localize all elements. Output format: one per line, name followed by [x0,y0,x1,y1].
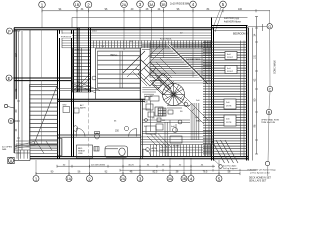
grid bubble F (left) [7,28,17,34]
svg-text:G: G [268,25,271,29]
interior wall y78 (double) [14,78,71,81]
svg-text:100: 100 [238,8,243,11]
ridge diagonal B white halo [168,44,208,84]
door arc center bottom [143,149,151,157]
small circle fixture center [184,103,188,107]
grid bubble 3 (bottom) [137,176,143,182]
grid bubble C (right) [267,86,272,91]
top exterior wall (double line) [14,28,212,30]
misc marker circle top [124,126,128,130]
grid bubble D (left) [8,118,18,123]
grid bubble 1 (bottom) [33,176,39,182]
grid bubble E (left) [6,75,16,81]
label box 4x4 post second [225,66,237,74]
lower-left deck stripes [16,141,58,154]
interior wall x71 (double) [72,30,74,157]
grid line 2 leader [88,8,90,101]
closet box fixture lower-left [77,145,93,158]
stair S1 upper (treads) [73,48,92,92]
grid bubble 5 (bottom) [216,176,222,182]
svg-text:E: E [8,76,11,81]
text clear patch [58,34,72,38]
svg-text:46.25: 46.25 [128,164,134,166]
svg-text:BATH: BATH [80,107,86,110]
grid bubble B (right) [266,109,271,114]
bath door arc [77,128,86,137]
bottom secondary dimension line [57,165,215,168]
toilet fixture [73,126,77,132]
right wing top wall (double line) [212,26,248,28]
deck left edge wall [95,48,97,99]
annotation text near grid 5 [224,17,242,23]
grid line 3 leader [139,7,141,100]
bottom grid bubbles row [33,176,222,182]
left dimension line [17,31,22,160]
grid line 4 leader [192,8,194,45]
hall lines center [142,120,190,157]
center horizontal partition y131 (double) [142,132,211,134]
svg-text:SPACE: SPACE [78,149,86,152]
bottom dimension numbers [51,171,231,174]
bottom grid leader lines [36,158,219,175]
center partition lines [142,101,190,132]
stair stringer wall left (double) [77,28,79,92]
ridge diagonal B [168,44,208,84]
grid 1 line through patio [41,30,43,78]
left exterior wall (double line) [14,28,16,153]
svg-text:R-30 INSUL: R-30 INSUL [160,38,173,40]
top dimension line [42,9,270,12]
label box fourth [224,115,236,126]
svg-text:4x8 HDR Above: 4x8 HDR Above [224,20,242,23]
sheet note bottom right [249,178,272,183]
svg-text:2x8 RAFTERS: 2x8 RAFTERS [186,58,201,61]
svg-text:DN: DN [162,120,166,122]
diamond brace 1 [138,62,162,86]
svg-text:F: F [8,29,11,34]
svg-text:2x10 RIDGE BM: 2x10 RIDGE BM [170,2,189,6]
wing bottom diagonal braces [212,140,239,163]
deck top edge line [96,48,140,50]
small center boxes [155,107,163,116]
hip diagonal C [123,51,145,73]
bottom deck band lines [141,140,214,145]
label box 4x4 post upper [225,52,237,60]
right wall inner line [252,28,254,161]
grid bubble 1B (top) [74,1,81,8]
grid bubble 3A (top) [148,1,155,8]
grid bubble 1 (top) [39,1,46,8]
right grid vertical line [268,10,270,176]
svg-text:JSTS: JSTS [226,122,232,124]
top band edge vertical [61,30,63,48]
svg-text:3B: 3B [161,3,166,7]
keynote circle bottom right [265,161,269,165]
extra hip diagonals [127,45,204,86]
grid bubble 2 (top) [85,1,92,8]
diagonal bundle lower center [147,134,171,148]
center fixtures small [146,126,182,143]
joist hatch band center-right [142,43,212,84]
svg-text:BEDROOM 2: BEDROOM 2 [152,151,166,153]
grid bubble 3 (top) [137,1,144,8]
ridge diagonal A [141,60,172,90]
top grid bubbles row [39,1,227,8]
svg-text:B: B [268,111,271,115]
roof outline left stub [71,18,73,29]
svg-text:4x4 Thru Axle: 4x4 Thru Axle [223,165,237,168]
room A texts [114,121,120,133]
svg-text:WALL: WALL [196,119,203,122]
grid bubble 2 (bottom) [87,176,93,182]
interior wall y99-101 (double) [58,99,146,101]
center clutter rows [142,88,160,95]
grid line 1B leader [76,7,78,44]
svg-text:2x6 DECKING: 2x6 DECKING [91,164,105,166]
bottom tertiary dimension line [120,169,256,172]
svg-text:3B: 3B [182,177,187,181]
bottom exterior wall (double line) [30,157,248,159]
svg-text:14R: 14R [75,50,79,52]
svg-text:TRIM 10x124N: TRIM 10x124N [261,122,275,124]
spiral fan / round feature [163,84,185,106]
svg-text:DECK HOME IN SET: DECK HOME IN SET [249,178,272,180]
svg-text:CONC WALK: CONC WALK [274,60,277,74]
brace tick marks [163,73,195,111]
small dark box fixture [94,147,99,152]
leader from wing wall to bubble G [248,25,267,27]
bedroom label diamond [145,147,165,153]
grid bubble 2A (top) [121,1,128,8]
small rect cluster left of fan [145,81,161,101]
svg-text:84 BM: 84 BM [173,146,179,148]
deck plank stripes area [98,51,141,88]
svg-text:3A: 3A [168,177,173,181]
interior wall x57 (double) [58,30,60,159]
interior grid wall x30 [29,30,31,161]
annotation bottom left [2,147,12,151]
svg-text:PLANNING with Somer fittings: PLANNING with Somer fittings [248,169,276,172]
annotation 4x4 rail post (bottom) [223,165,238,171]
toilet 2 fixture [94,132,99,139]
svg-text:1B: 1B [75,3,80,7]
grid bubble 2A (bottom) [120,176,126,182]
wing strip line [214,30,247,32]
svg-text:2A: 2A [122,3,127,7]
right edge annotation text [261,119,279,125]
interior wall x140 (double) [141,48,143,159]
stair S2 lower-left treads [30,85,58,145]
upper area tiny texts 2 [75,46,201,61]
bottom deck extra horizontals [141,137,214,153]
grid bubble 1A (bottom) [66,176,72,182]
keynote marker (left) [4,104,14,108]
svg-text:3A: 3A [149,3,154,7]
left dimension numbers (rotated) [15,52,18,147]
svg-text:ALTA: ALTA [152,147,158,150]
svg-text:hall: hall [171,126,175,128]
double diagonal corridor [150,71,208,124]
stair stringer wall right (double) [89,28,91,92]
bottom secondary dimension numbers [63,164,204,166]
grid bubble 3B (bottom) [181,176,187,182]
right dimension numbers (rotated) [254,33,257,127]
laundry fixture box 1 [63,107,70,113]
small circle marker near deck [92,76,96,80]
left grid bubbles [4,28,30,164]
svg-text:C: C [269,88,272,92]
svg-text:OPEN TRAIL ROW: OPEN TRAIL ROW [261,119,279,122]
svg-text:FOR B XX: FOR B XX [61,37,72,39]
grid 1 line through stair [41,81,43,144]
dark hatch box center [158,108,166,116]
bottom main dimension line [36,172,240,175]
svg-text:2x4 rg Support: 2x4 rg Support [223,167,238,170]
extra center fixtures [145,96,183,130]
svg-text:1A: 1A [67,177,72,181]
top dimension numbers [59,8,243,11]
svg-text:POST: POST [227,57,234,59]
bed / tub fixture [105,146,128,158]
grid line 2A leader [123,7,125,50]
svg-text:W/D: W/D [63,105,68,107]
right wing roof hatch [203,41,247,157]
roof slope diagonals left-center [72,82,100,94]
grid bubble 4 (top) [190,1,197,8]
upper band tiny texts [61,30,183,43]
grid line 1 leader [41,8,43,28]
right grid bubbles [219,24,273,169]
label box third [224,99,236,109]
svg-text:76.5: 76.5 [203,171,208,174]
grid bubble 4 (bottom) [188,176,194,182]
bottom deck joist ticks [150,145,214,157]
grid bubble A (bottom left) [8,157,30,163]
roof outline top edge [72,17,248,19]
svg-text:D: D [10,120,13,124]
top grid leader lines [42,7,224,101]
grid line 3B leader [163,8,165,59]
keynote circle bottom center [219,165,223,169]
annotation plan note (bottom right) [248,169,276,175]
grid bubble 5 (top) [220,1,227,8]
center area tiny texts [144,96,203,148]
svg-text:A: A [10,159,13,163]
right dimension line [255,17,263,155]
entry steps bottom-left [14,150,30,159]
leader to keynote circle bottom [212,158,220,166]
interior wall y135-137 (double) [58,135,142,137]
svg-text:at This System on Kit: at This System on Kit [250,171,270,174]
svg-text:JSTS: JSTS [226,105,232,107]
grid 5 slanted leaders [212,7,221,30]
svg-text:82.5: 82.5 [153,171,158,174]
svg-text:BED+L: BED+L [111,55,119,57]
grid bubble G (right top) [267,24,272,29]
svg-text:SEAL LAYS SET: SEAL LAYS SET [249,179,267,182]
svg-text:POST: POST [227,71,234,73]
closet box in room [74,108,79,113]
svg-text:LINE: LINE [78,153,83,155]
grid line 3A leader [150,8,152,58]
dense wall hatch center [190,103,200,140]
transition band lines below deck stripes [58,88,142,90]
svg-text:BEDROOM 3: BEDROOM 3 [233,33,248,36]
grid bubble 3A (bottom) [167,176,173,182]
grid line 2 dashed through plan [88,101,90,156]
room A door arc right [129,129,137,137]
right exterior wall (double line) [247,26,249,161]
top fascia band parallel lines [62,33,212,48]
chase hatch block [58,139,63,156]
grid bubble 3B (top) [160,1,167,8]
svg-text:2A: 2A [121,177,126,181]
leader lines lower-left [15,142,38,149]
svg-text:101: 101 [254,54,257,59]
diamond brace 2 [152,73,174,95]
svg-text:2x10: 2x10 [92,30,98,32]
bath texts [80,104,86,110]
central wall x211 (double) [212,18,214,161]
top band joist tick hatch [90,41,211,48]
